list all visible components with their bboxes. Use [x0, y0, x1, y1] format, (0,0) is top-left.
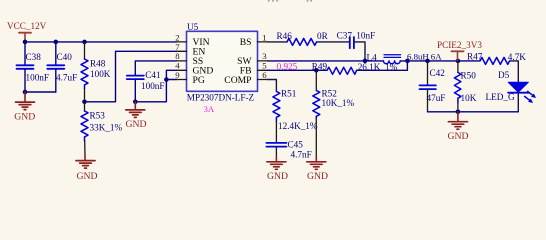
svg-text:R53: R53: [90, 110, 106, 120]
resistor R51: [273, 89, 318, 143]
svg-text:6A: 6A: [431, 51, 442, 61]
wire output rail: [407, 60, 480, 62]
power port VCC_12V: [7, 21, 47, 42]
IC U5 MP2307DN-LF-Z body: [187, 22, 258, 114]
resistor R53: [81, 102, 123, 156]
node junction C40: [54, 40, 59, 45]
ground GND (C41): [126, 102, 147, 130]
wire COMP net down to R51: [268, 80, 277, 92]
resistor R47: [467, 52, 526, 65]
wire SW net to L4: [268, 60, 384, 62]
wire C38-C40 bottom rail: [25, 91, 56, 93]
svg-text:47uF: 47uF: [427, 93, 446, 103]
svg-text:GND: GND: [448, 131, 469, 142]
capacitor C41: [127, 70, 165, 102]
svg-text:10K_1%: 10K_1%: [322, 98, 355, 108]
pin 5 FB stub: [240, 61, 268, 77]
resistor R52: [313, 70, 355, 157]
capacitor C40: [47, 42, 77, 92]
node junction C41/GND rail: [133, 100, 138, 105]
pin 7 EN stub: [175, 42, 205, 58]
inductor L4: [367, 51, 443, 63]
svg-text:10nF: 10nF: [356, 31, 375, 41]
svg-text:0.925: 0.925: [277, 61, 298, 71]
svg-text:BS: BS: [240, 37, 252, 48]
svg-text:PCIE2_3V3: PCIE2_3V3: [437, 40, 482, 50]
ground GND (C38/C40): [14, 92, 35, 122]
svg-text:C41: C41: [145, 70, 161, 80]
svg-text:6: 6: [262, 70, 267, 80]
node junction C37/SW: [363, 59, 368, 64]
wire L4 to output node: [400, 60, 407, 62]
svg-text:GND: GND: [77, 171, 98, 182]
svg-text:GND: GND: [267, 171, 288, 182]
svg-text:MP2307DN-LF-Z: MP2307DN-LF-Z: [187, 93, 255, 103]
power port PCIE2_3V3: [437, 40, 482, 61]
svg-text:C40: C40: [57, 52, 73, 62]
svg-text:C37: C37: [337, 31, 353, 41]
pin 6 COMP stub: [224, 70, 267, 86]
node junction VCC/C38: [23, 40, 28, 45]
svg-text:33K_1%: 33K_1%: [90, 123, 123, 133]
ground GND (C45): [267, 157, 288, 182]
ground GND (R50): [448, 112, 469, 142]
pin 3 SW stub: [237, 51, 267, 67]
svg-text:R49: R49: [312, 61, 328, 71]
svg-text:C42: C42: [430, 68, 446, 78]
node junction R50/GND bottom: [456, 110, 461, 115]
pin 4 GND stub: [175, 61, 213, 77]
svg-text:4.7uF: 4.7uF: [56, 73, 77, 83]
svg-text:C45: C45: [288, 140, 304, 150]
svg-text:9: 9: [175, 70, 180, 80]
resistor R46: [277, 31, 329, 45]
node junction C42: [425, 59, 430, 64]
svg-text:0R: 0R: [317, 31, 329, 41]
svg-text:C38: C38: [26, 52, 42, 62]
wire VCC rail to VIN: [25, 41, 177, 43]
node junction C38/GND: [23, 90, 28, 95]
wire FB net: [268, 69, 328, 71]
wire bottom rail C42-GND-LED: [428, 111, 519, 113]
node junction L4 output: [405, 59, 410, 64]
LED arrow 2: [525, 96, 530, 100]
svg-text:R51: R51: [281, 89, 297, 99]
diode D5 LED: [486, 70, 537, 112]
svg-text:R48: R48: [90, 59, 106, 69]
svg-text:GND: GND: [14, 111, 35, 122]
capacitor C45: [266, 140, 311, 160]
pin 9 PG stub: [175, 70, 205, 86]
capacitor C42: [420, 61, 446, 112]
svg-text:R47: R47: [467, 52, 483, 62]
svg-text:R52: R52: [322, 89, 338, 99]
svg-text:100nF: 100nF: [141, 81, 165, 91]
svg-text:R50: R50: [461, 71, 477, 81]
node junction R48: [82, 40, 87, 45]
wire R49 to output node: [357, 61, 408, 70]
svg-text:4.7nF: 4.7nF: [291, 150, 312, 160]
svg-text:R46: R46: [277, 31, 293, 41]
svg-text:12.4K_1%: 12.4K_1%: [278, 121, 318, 131]
svg-text:PG: PG: [193, 75, 205, 86]
svg-text:100K: 100K: [90, 69, 111, 79]
LED arrow 1: [528, 91, 533, 95]
svg-text:VCC_12V: VCC_12V: [7, 21, 47, 31]
wire GND/PG net: C41 bottom right, up to pin4: [135, 70, 176, 102]
resistor R48: [81, 42, 111, 102]
node junction FB/R52: [314, 68, 319, 73]
node junction pin9: [164, 77, 169, 82]
wire R46 to C37: [317, 41, 350, 43]
resistor R50: [454, 61, 476, 112]
wire EN net: pin7 left, down, to R48/R53 junction: [85, 51, 177, 102]
wire SS net: pin8 left then down to C41: [135, 61, 176, 75]
svg-text:D5: D5: [498, 70, 510, 80]
svg-text:3A: 3A: [204, 104, 215, 114]
wire R47 to LED: [510, 61, 519, 82]
svg-text:GND: GND: [126, 119, 147, 130]
svg-text:1: 1: [262, 32, 266, 42]
svg-text:U5: U5: [187, 22, 199, 32]
resistor R49: [312, 61, 398, 74]
pin 8 SS stub: [175, 51, 203, 67]
wire C37 down to SW line: [354, 42, 365, 61]
svg-text:LED_G: LED_G: [486, 92, 515, 102]
wire BS net to R46: [268, 41, 288, 43]
node junction R50/power: [456, 59, 461, 64]
svg-text:100nF: 100nF: [26, 73, 50, 83]
capacitor C38: [17, 42, 50, 92]
pin 1 BS stub: [240, 32, 268, 48]
svg-text:COMP: COMP: [224, 75, 251, 86]
ground GND (R53): [76, 156, 98, 182]
ground GND (R52): [307, 157, 328, 182]
capacitor C37: [337, 31, 376, 49]
clipped text remnants at top edge: [268, 0, 312, 2]
svg-text:10K: 10K: [461, 93, 477, 103]
pin 2 VIN stub: [175, 32, 209, 48]
svg-text:GND: GND: [307, 171, 328, 182]
wire PG pin9: [166, 79, 176, 81]
node junction R48/R53/EN: [82, 100, 87, 105]
